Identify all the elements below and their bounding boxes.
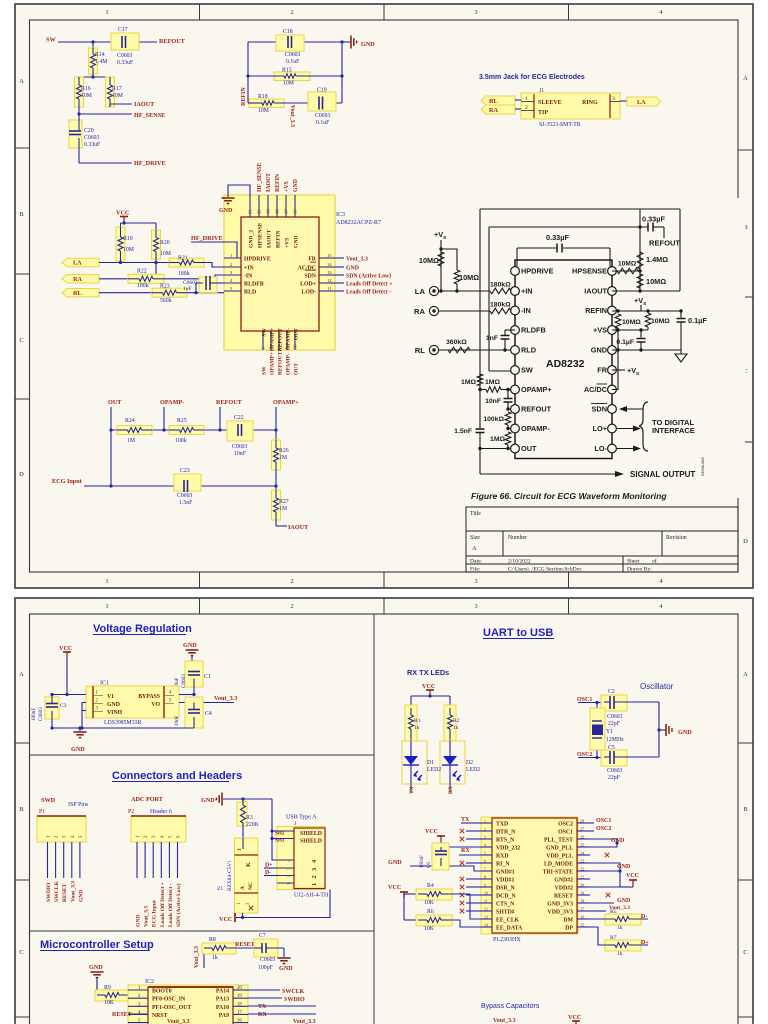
svg-text:10M: 10M xyxy=(123,247,134,253)
svg-text:10M: 10M xyxy=(112,93,123,99)
svg-text:1k: 1k xyxy=(617,951,623,957)
svg-text:3: 3 xyxy=(484,836,486,840)
svg-text:0.33uF: 0.33uF xyxy=(84,142,101,148)
svg-text:C0603: C0603 xyxy=(181,674,187,688)
svg-text:10nF: 10nF xyxy=(234,451,247,457)
svg-text:3: 3 xyxy=(474,603,477,610)
svg-text:VCC: VCC xyxy=(116,210,129,217)
svg-text:VDD_232: VDD_232 xyxy=(496,846,520,852)
svg-text:LOD+: LOD+ xyxy=(300,282,316,288)
svg-text:BYPASS: BYPASS xyxy=(138,694,160,700)
svg-text:10MΩ: 10MΩ xyxy=(419,256,439,265)
svg-text:1MΩ: 1MΩ xyxy=(485,379,500,386)
svg-text:D: D xyxy=(743,538,748,545)
svg-text:RESET: RESET xyxy=(554,894,573,900)
svg-text:13: 13 xyxy=(484,916,488,920)
svg-text:RLDFB: RLDFB xyxy=(521,326,546,335)
svg-text:10MΩ: 10MΩ xyxy=(651,318,670,325)
svg-text:R24: R24 xyxy=(125,418,135,424)
svg-text:26: 26 xyxy=(580,835,584,840)
svg-text:21: 21 xyxy=(580,875,584,880)
svg-text:+V: +V xyxy=(634,296,643,305)
svg-text:+VS: +VS xyxy=(593,326,607,335)
svg-text:Y1: Y1 xyxy=(606,729,613,735)
svg-text:11: 11 xyxy=(327,286,332,291)
svg-text:PA13: PA13 xyxy=(216,997,229,1003)
svg-text:Header 6: Header 6 xyxy=(150,809,172,815)
svg-text:18: 18 xyxy=(237,1002,242,1007)
svg-text:10K: 10K xyxy=(104,1000,115,1006)
svg-text:10K: 10K xyxy=(424,926,435,932)
svg-text:IAOUT: IAOUT xyxy=(288,524,309,531)
svg-text:Figure 66. Circuit for ECG Wav: Figure 66. Circuit for ECG Waveform Moni… xyxy=(471,491,667,501)
svg-text:22pF: 22pF xyxy=(608,721,621,727)
svg-text:18: 18 xyxy=(275,209,280,214)
svg-text:180k: 180k xyxy=(178,271,190,277)
svg-text:1k: 1k xyxy=(212,955,218,961)
svg-text:1: 1 xyxy=(105,9,108,16)
svg-text:100k: 100k xyxy=(175,438,187,444)
svg-text:180kΩ: 180kΩ xyxy=(490,282,511,289)
svg-text:C0603: C0603 xyxy=(260,957,276,963)
svg-text:LED2: LED2 xyxy=(427,767,441,773)
svg-text:SWDIO: SWDIO xyxy=(46,882,52,902)
svg-text:RA: RA xyxy=(489,107,498,114)
svg-text:C6: C6 xyxy=(427,862,432,868)
svg-text:12: 12 xyxy=(484,908,488,912)
svg-text:LD_MODE: LD_MODE xyxy=(544,862,573,868)
svg-text:SHTD#: SHTD# xyxy=(496,910,515,916)
svg-text:R25: R25 xyxy=(177,418,187,424)
svg-text:BZX84-C5V1: BZX84-C5V1 xyxy=(227,860,233,891)
svg-text:1M: 1M xyxy=(279,455,287,461)
svg-text:C17: C17 xyxy=(118,27,128,33)
svg-text:22pF: 22pF xyxy=(608,775,621,781)
svg-text:Vout_3.3: Vout_3.3 xyxy=(293,1019,316,1024)
svg-text:UJ2-AH-4-TH: UJ2-AH-4-TH xyxy=(294,893,329,899)
svg-text:C7: C7 xyxy=(259,933,266,939)
svg-text:C0603: C0603 xyxy=(38,707,44,721)
svg-text:C0603: C0603 xyxy=(315,113,331,119)
svg-text:REFOUT: REFOUT xyxy=(216,399,243,406)
svg-text:PF1-OSC_OUT: PF1-OSC_OUT xyxy=(152,1005,191,1011)
svg-text:IC1: IC1 xyxy=(100,681,109,687)
svg-text:GND#2: GND#2 xyxy=(554,878,573,884)
svg-text:10nF: 10nF xyxy=(485,398,501,405)
svg-text:VCC: VCC xyxy=(626,873,639,879)
svg-text:16: 16 xyxy=(293,209,298,214)
svg-text:HPSENSE: HPSENSE xyxy=(258,222,264,248)
svg-text:RX: RX xyxy=(461,848,470,854)
svg-text:0.33µF: 0.33µF xyxy=(546,233,569,242)
svg-text:FR: FR xyxy=(597,366,607,375)
svg-text:10MΩ: 10MΩ xyxy=(459,273,479,282)
svg-text:7: 7 xyxy=(484,868,486,872)
svg-text:RL: RL xyxy=(415,346,426,355)
svg-text:CTS_N: CTS_N xyxy=(496,902,515,908)
svg-text:-IN: -IN xyxy=(521,306,531,315)
svg-text:ECG Input: ECG Input xyxy=(152,900,158,927)
svg-text:GND: GND xyxy=(107,702,120,708)
svg-text:15: 15 xyxy=(580,923,584,928)
svg-text:GND_PLL: GND_PLL xyxy=(546,846,573,852)
svg-text:C0603: C0603 xyxy=(607,768,623,774)
svg-text:C:\Users\..\ECG Section.SchDoc: C:\Users\..\ECG Section.SchDoc xyxy=(508,567,582,573)
svg-text:16: 16 xyxy=(237,1019,242,1024)
svg-text:Number: Number xyxy=(508,535,527,541)
svg-text:IC2: IC2 xyxy=(145,979,154,985)
svg-text:OPAMP+: OPAMP+ xyxy=(521,385,552,394)
svg-text:RESET: RESET xyxy=(235,942,255,948)
svg-text:R3: R3 xyxy=(246,815,253,821)
svg-text:+IN: +IN xyxy=(244,266,255,272)
svg-text:GND: GND xyxy=(136,915,142,927)
svg-text:GND: GND xyxy=(617,864,631,870)
svg-text:SW: SW xyxy=(46,37,56,44)
svg-text:REFIN: REFIN xyxy=(275,173,281,192)
svg-text:LDS3985M33R: LDS3985M33R xyxy=(104,720,141,726)
svg-text:3: 3 xyxy=(474,9,477,16)
svg-text:13: 13 xyxy=(327,270,332,275)
svg-text:1nF: 1nF xyxy=(486,335,498,342)
svg-text:ISP Pins: ISP Pins xyxy=(68,802,89,808)
svg-text:3: 3 xyxy=(237,848,243,851)
svg-text:GND: GND xyxy=(89,964,103,971)
svg-text:2: 2 xyxy=(290,578,293,585)
svg-text:RA: RA xyxy=(73,276,82,283)
svg-text:100nF: 100nF xyxy=(31,708,37,721)
svg-text:15: 15 xyxy=(327,253,332,258)
svg-text:Title: Title xyxy=(470,511,481,517)
svg-text:1.4MΩ: 1.4MΩ xyxy=(646,255,668,264)
svg-text:R2: R2 xyxy=(453,718,460,724)
svg-text:R22: R22 xyxy=(137,269,147,275)
svg-text:RLDFB: RLDFB xyxy=(244,282,264,288)
svg-text:SW: SW xyxy=(262,366,268,375)
svg-text:D: D xyxy=(19,471,24,478)
svg-text:RL: RL xyxy=(489,98,498,105)
svg-text:SIGNAL OUTPUT: SIGNAL OUTPUT xyxy=(630,470,695,479)
svg-text:20: 20 xyxy=(580,883,584,888)
svg-text:GND: GND xyxy=(678,729,692,736)
svg-text:IC3: IC3 xyxy=(336,212,345,218)
svg-text:A: A xyxy=(240,886,246,890)
svg-text:RL: RL xyxy=(73,290,82,297)
svg-text:R19: R19 xyxy=(123,236,133,242)
svg-text:R23: R23 xyxy=(160,284,170,290)
svg-text:28: 28 xyxy=(580,819,584,824)
svg-text:SW: SW xyxy=(521,366,533,375)
svg-text:DTR_N: DTR_N xyxy=(496,830,516,836)
svg-text:PA10: PA10 xyxy=(216,1005,229,1011)
svg-text:VDD_3V3: VDD_3V3 xyxy=(548,910,574,916)
svg-text:A: A xyxy=(19,78,24,85)
svg-text:17: 17 xyxy=(284,209,289,214)
svg-text:C0603: C0603 xyxy=(177,493,193,499)
svg-text:GND: GND xyxy=(611,838,625,844)
svg-text:REFOUT: REFOUT xyxy=(278,328,284,352)
svg-text:10M: 10M xyxy=(81,93,92,99)
svg-text:VDD#2: VDD#2 xyxy=(555,886,573,892)
svg-text:Leads Off Detect -: Leads Off Detect - xyxy=(168,883,174,927)
svg-text:PL2303HX: PL2303HX xyxy=(493,937,521,943)
svg-text:TRI-STATE: TRI-STATE xyxy=(543,870,574,876)
svg-text:Vout_3.3: Vout_3.3 xyxy=(144,906,150,927)
svg-text:PA14: PA14 xyxy=(216,989,229,995)
svg-text:Leads Off Detect +: Leads Off Detect + xyxy=(346,282,393,288)
svg-text:EE_DATA: EE_DATA xyxy=(496,926,523,932)
svg-text:VDD_PLL: VDD_PLL xyxy=(546,854,573,860)
svg-text:C0603: C0603 xyxy=(84,135,100,141)
svg-text:R27: R27 xyxy=(279,499,289,505)
svg-text:10: 10 xyxy=(293,344,298,349)
svg-text:V1: V1 xyxy=(107,694,114,700)
svg-text:220K: 220K xyxy=(246,822,260,828)
svg-text:180kΩ: 180kΩ xyxy=(490,302,511,309)
svg-text:GND: GND xyxy=(71,746,85,753)
svg-text:OPAMP-: OPAMP- xyxy=(286,328,292,350)
svg-text:C20: C20 xyxy=(84,128,94,134)
svg-text:100nF: 100nF xyxy=(420,855,425,868)
svg-text:20: 20 xyxy=(257,209,262,214)
svg-text:+V: +V xyxy=(627,366,636,375)
svg-text:R9: R9 xyxy=(104,985,111,991)
svg-text:VO: VO xyxy=(151,702,160,708)
svg-text:1: 1 xyxy=(311,883,318,886)
svg-text:File:: File: xyxy=(470,567,481,573)
svg-text:GND: GND xyxy=(279,965,293,972)
svg-text:3: 3 xyxy=(474,578,477,585)
svg-text:R15: R15 xyxy=(282,68,292,74)
svg-text:C: C xyxy=(19,337,23,344)
svg-text:PF0-OSC_IN: PF0-OSC_IN xyxy=(152,997,186,1003)
svg-text:10nF: 10nF xyxy=(174,715,180,726)
svg-text:Drawn By:: Drawn By: xyxy=(627,567,652,573)
svg-text:RING: RING xyxy=(582,100,598,106)
svg-text:C23: C23 xyxy=(180,468,190,474)
svg-text:1: 1 xyxy=(105,578,108,585)
svg-text:0.1µF: 0.1µF xyxy=(616,339,634,346)
svg-text:ADC PORT: ADC PORT xyxy=(131,796,164,803)
svg-text:SW: SW xyxy=(262,328,268,337)
svg-text:10MΩ: 10MΩ xyxy=(622,319,641,326)
svg-text:12: 12 xyxy=(327,278,332,283)
svg-text:HPDRIVE: HPDRIVE xyxy=(244,257,271,263)
svg-text:19: 19 xyxy=(266,209,271,214)
svg-text:1M: 1M xyxy=(127,438,135,444)
svg-text:SHIELD: SHIELD xyxy=(300,831,322,837)
svg-text:360kΩ: 360kΩ xyxy=(446,339,467,346)
svg-text:DM: DM xyxy=(563,918,573,924)
svg-text:LA: LA xyxy=(73,260,82,267)
svg-text:TX: TX xyxy=(258,1004,267,1010)
svg-text:C19: C19 xyxy=(317,88,327,94)
svg-text:C0603: C0603 xyxy=(117,53,133,59)
svg-text:14: 14 xyxy=(484,924,488,928)
svg-text:HF_DRIVE: HF_DRIVE xyxy=(191,235,223,242)
svg-text:PA9: PA9 xyxy=(219,1013,229,1019)
svg-text:19: 19 xyxy=(580,891,584,896)
svg-text:SDN (Active Low): SDN (Active Low) xyxy=(175,883,182,927)
svg-text:C0603: C0603 xyxy=(232,444,248,450)
svg-text:0.33µF: 0.33µF xyxy=(642,215,665,224)
svg-text:560k: 560k xyxy=(160,298,172,304)
svg-text:11: 11 xyxy=(484,900,488,904)
svg-text:GND#1: GND#1 xyxy=(496,870,515,876)
svg-text:OPAMP+: OPAMP+ xyxy=(273,399,299,406)
svg-text:OUT: OUT xyxy=(521,444,537,453)
svg-text:REFOUT: REFOUT xyxy=(649,239,680,248)
svg-text:TXD: TXD xyxy=(496,822,508,828)
svg-text:OSC1: OSC1 xyxy=(558,830,573,836)
svg-text:Microcontroller Setup: Microcontroller Setup xyxy=(40,939,154,951)
svg-text:USB Type A: USB Type A xyxy=(286,815,317,821)
svg-text:GND: GND xyxy=(294,236,300,248)
svg-text:INTERFACE: INTERFACE xyxy=(652,426,695,435)
svg-text:Date:: Date: xyxy=(470,559,483,565)
svg-text:R4: R4 xyxy=(427,883,434,889)
svg-text:DCD_N: DCD_N xyxy=(496,894,516,900)
svg-text:DP: DP xyxy=(565,926,573,932)
svg-text:Voltage Regulation: Voltage Regulation xyxy=(93,623,192,635)
svg-text:SDN (Active Low): SDN (Active Low) xyxy=(346,273,391,280)
svg-text:SWD: SWD xyxy=(41,797,56,804)
svg-text:D+: D+ xyxy=(641,940,649,946)
svg-text:Revision: Revision xyxy=(666,535,687,541)
svg-text:22: 22 xyxy=(580,867,584,872)
svg-text:1k: 1k xyxy=(617,925,623,931)
svg-text:UART to USB: UART to USB xyxy=(483,627,553,639)
svg-text:C: C xyxy=(743,949,747,956)
svg-text:100pF: 100pF xyxy=(258,965,274,971)
svg-text:1: 1 xyxy=(105,603,108,610)
svg-text:R20: R20 xyxy=(160,240,170,246)
svg-text:IAOUT: IAOUT xyxy=(584,287,607,296)
svg-text:Vout_3.3: Vout_3.3 xyxy=(194,946,200,968)
svg-text:RTS_N: RTS_N xyxy=(496,838,515,844)
svg-text:0.1µF: 0.1µF xyxy=(688,316,707,325)
svg-text:C22: C22 xyxy=(234,415,244,421)
svg-text:17: 17 xyxy=(237,1010,242,1015)
svg-text:AD8232ACPZ-R7: AD8232ACPZ-R7 xyxy=(336,220,381,226)
svg-text:R21: R21 xyxy=(178,256,188,262)
svg-text:Size: Size xyxy=(470,535,480,541)
svg-text:K: K xyxy=(246,862,252,867)
svg-text:RESET: RESET xyxy=(62,883,68,902)
svg-text:AC/DC: AC/DC xyxy=(584,385,608,394)
svg-text:OPAMP+: OPAMP+ xyxy=(270,328,276,351)
svg-text:RXD: RXD xyxy=(496,854,509,860)
svg-text:GND: GND xyxy=(617,898,631,904)
svg-text:1uF: 1uF xyxy=(183,286,192,292)
svg-text:2/10/2022: 2/10/2022 xyxy=(508,559,531,565)
svg-text:NC: NC xyxy=(248,882,254,890)
svg-text:OSC2: OSC2 xyxy=(596,826,611,832)
svg-text:0.33uF: 0.33uF xyxy=(117,60,134,66)
svg-text:R1: R1 xyxy=(414,718,421,724)
svg-text:R7: R7 xyxy=(610,935,617,941)
svg-text:LOD-: LOD- xyxy=(302,290,317,296)
svg-text:GND: GND xyxy=(361,41,375,48)
svg-text:P2: P2 xyxy=(128,809,134,815)
svg-text:P1: P1 xyxy=(39,809,45,815)
svg-text:8: 8 xyxy=(484,876,486,880)
svg-text:Leads Off Detect -: Leads Off Detect - xyxy=(346,290,391,296)
svg-text:OSC1: OSC1 xyxy=(596,818,611,824)
svg-text:VCC: VCC xyxy=(59,645,72,652)
svg-text:14: 14 xyxy=(327,262,332,267)
svg-text:A: A xyxy=(743,671,748,678)
svg-text:Bypass Capacitors: Bypass Capacitors xyxy=(481,1003,540,1010)
svg-text:180k: 180k xyxy=(137,283,149,289)
svg-text:VINH: VINH xyxy=(107,710,123,716)
svg-text:C4: C4 xyxy=(205,711,212,717)
svg-text:10M: 10M xyxy=(160,251,171,257)
svg-text:SWCLK: SWCLK xyxy=(54,881,60,902)
svg-text:REFOUT: REFOUT xyxy=(521,405,552,414)
svg-text:A: A xyxy=(743,75,748,82)
svg-text:RX TX LEDs: RX TX LEDs xyxy=(407,668,449,677)
svg-text:+VS: +VS xyxy=(285,238,291,248)
svg-text:6: 6 xyxy=(484,860,486,864)
svg-text:R8: R8 xyxy=(209,937,216,943)
svg-text:Z1: Z1 xyxy=(217,886,223,892)
svg-text:SWCLK: SWCLK xyxy=(282,989,305,995)
svg-text:HPSENSE: HPSENSE xyxy=(572,267,607,276)
svg-text:1.4M: 1.4M xyxy=(95,59,107,65)
svg-text:OUT: OUT xyxy=(294,363,300,375)
svg-text:AD8232: AD8232 xyxy=(546,358,585,370)
svg-text:C18: C18 xyxy=(283,29,293,35)
svg-text:of: of xyxy=(652,558,657,565)
svg-text:SHIELD: SHIELD xyxy=(300,839,322,845)
svg-text:C3: C3 xyxy=(60,703,67,709)
svg-text:ECG Input: ECG Input xyxy=(52,478,83,485)
svg-text:Oscillator: Oscillator xyxy=(640,682,674,691)
svg-text:D2: D2 xyxy=(466,760,473,766)
svg-text:Leads Off Detect +: Leads Off Detect + xyxy=(160,882,166,927)
svg-text:TX: TX xyxy=(409,786,415,794)
svg-text:GND: GND xyxy=(388,859,402,866)
svg-text:0.1uF: 0.1uF xyxy=(316,120,330,126)
svg-text:HF_DRIVE: HF_DRIVE xyxy=(134,160,166,167)
svg-text:D-: D- xyxy=(641,914,647,920)
svg-text:Vout_3.3: Vout_3.3 xyxy=(346,257,368,263)
svg-text:GND: GND xyxy=(219,208,233,214)
svg-text:FR: FR xyxy=(308,257,317,263)
svg-text:A: A xyxy=(472,545,477,552)
svg-text:TIP: TIP xyxy=(538,110,548,116)
svg-text:10M: 10M xyxy=(258,108,269,114)
svg-text:LO-: LO- xyxy=(594,444,607,453)
svg-text:SJ-3523-SMT-TR: SJ-3523-SMT-TR xyxy=(539,122,581,128)
svg-text:GND: GND xyxy=(201,797,215,804)
svg-text:R14: R14 xyxy=(95,52,105,58)
svg-text:3: 3 xyxy=(311,868,318,871)
svg-text:IAOUT: IAOUT xyxy=(267,229,273,248)
svg-text:BOOT0: BOOT0 xyxy=(152,989,172,995)
svg-text:C0603: C0603 xyxy=(285,52,301,58)
svg-text:B: B xyxy=(743,806,748,813)
svg-text:RA: RA xyxy=(414,307,426,316)
svg-text:C1: C1 xyxy=(204,674,211,680)
svg-text:27: 27 xyxy=(580,827,584,832)
svg-text:HPDRIVE: HPDRIVE xyxy=(521,267,554,276)
svg-text:VCC: VCC xyxy=(422,683,435,690)
svg-text:RX: RX xyxy=(258,1012,267,1018)
svg-text:1k: 1k xyxy=(414,725,420,731)
svg-text:1MΩ: 1MΩ xyxy=(490,436,505,443)
